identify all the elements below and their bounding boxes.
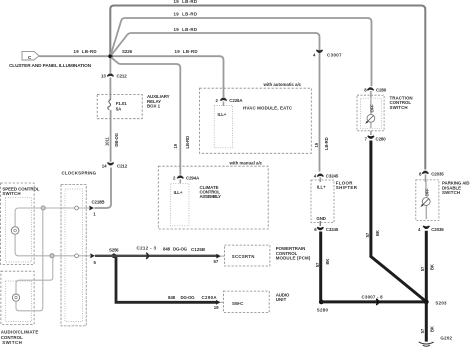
svg-text:C280: C280 <box>376 136 387 141</box>
connector C3245 pin 4 <box>314 174 339 179</box>
connector C212 pin 3 (inline chevron) <box>137 245 157 259</box>
svg-text:19 LB-RD: 19 LB-RD <box>174 0 198 4</box>
connector C3007 pin 4 (inline chevron) <box>313 50 342 57</box>
svg-text:C3245: C3245 <box>326 174 339 179</box>
svg-text:CLOCKSPRING: CLOCKSPRING <box>62 170 97 175</box>
connector C280 pin 7 <box>365 136 387 142</box>
label: rotated 57 BK (right vertical) <box>420 264 435 271</box>
HVAC module box (dashed) <box>200 88 312 153</box>
label: AUXILIARY RELAY BOX 1 <box>147 94 170 108</box>
connector C226A pin 2 <box>216 98 244 103</box>
connector C3245 pin 6 <box>314 227 339 232</box>
wire: S256 down to audio unit run <box>116 257 217 302</box>
connector C212 pin 14 <box>102 163 128 169</box>
svg-text:GND: GND <box>316 216 325 221</box>
svg-text:19 LB-RD: 19 LB-RD <box>174 11 198 16</box>
svg-text:SCCSRTN: SCCSRTN <box>232 254 255 259</box>
svg-text:19: 19 <box>173 143 178 148</box>
wire: S280 to S203 <box>321 300 426 303</box>
wire: C2035 pin 4 down to S203 <box>425 231 428 301</box>
svg-text:57: 57 <box>420 328 425 333</box>
svg-text:C212: C212 <box>117 74 128 79</box>
wire: audio switch bottom to splice on top wire <box>16 210 43 311</box>
svg-text:with manual a/c: with manual a/c <box>229 161 263 166</box>
wire: S226 down to connector C212 pin 13 <box>109 58 111 73</box>
wire: S226 to traction control switch C280 <box>111 18 372 86</box>
svg-text:5A: 5A <box>116 107 122 112</box>
svg-text:SHIFTER: SHIFTER <box>336 185 358 190</box>
parking aid disable switch box (dashed) <box>416 180 439 221</box>
svg-text:C218B: C218B <box>92 199 105 204</box>
svg-text:S203: S203 <box>435 301 447 306</box>
svg-text:14: 14 <box>102 164 107 169</box>
connector C2035 pin 4 <box>418 226 444 232</box>
auxiliary relay box 1 (dashed) <box>97 94 142 118</box>
connector C125B pin 57 (arrow) <box>214 254 225 264</box>
wire: C294A into inner box <box>179 179 181 183</box>
wire: S226 through C3007 to floor shifter C3245 <box>111 33 319 172</box>
clockspring ghost box (dashed tall) <box>61 185 86 326</box>
wire: C212 pin13 into fuse box <box>109 78 111 100</box>
svg-text:F1.01: F1.01 <box>116 101 127 106</box>
svg-text:57: 57 <box>365 232 370 237</box>
svg-text:SWITCH: SWITCH <box>442 190 460 195</box>
svg-text:19 LB-RD: 19 LB-RD <box>74 49 97 54</box>
splice circle on top wire <box>41 206 45 210</box>
svg-text:C294A: C294A <box>186 176 200 181</box>
svg-text:C3245: C3245 <box>326 227 339 232</box>
label: rotated 1011 DB-OG <box>104 133 119 146</box>
wire: S203 to ground G202 <box>425 302 428 342</box>
connector C280 pin 8 <box>364 88 386 93</box>
label: POWERTRAIN CONTROL MODULE (PCM) <box>276 246 311 260</box>
svg-text:57: 57 <box>214 259 219 264</box>
splice S280 <box>317 300 329 313</box>
svg-text:BK: BK <box>325 259 330 265</box>
clockspring inner box (dotted) <box>65 189 83 322</box>
svg-text:C280: C280 <box>376 88 387 93</box>
svg-text:CLUSTER AND PANEL ILLUMINATION: CLUSTER AND PANEL ILLUMINATION <box>9 63 91 68</box>
traction switch inner box (dotted) <box>361 98 382 128</box>
wire: switch bottom to clockspring (y=255.8) <box>15 234 91 256</box>
svg-text:LB-RD: LB-RD <box>185 136 190 149</box>
wire: C3245 pin 6 down to S280 <box>319 232 322 301</box>
svg-text:19: 19 <box>314 142 319 147</box>
splice circle on bottom wire <box>50 254 54 258</box>
connector C3007 pin 8 (inline chevron) <box>362 295 384 305</box>
svg-text:ILL+: ILL+ <box>174 190 183 195</box>
splice S203 <box>424 300 447 306</box>
label: rotated 19 LB-RD on climate feed <box>173 136 190 149</box>
clockspring contact circle (top wire) <box>75 206 79 210</box>
audio/climate control switch box (dashed) <box>1 271 34 324</box>
svg-text:S280: S280 <box>317 308 329 313</box>
label: rotated 57 BK (ground drop) <box>420 326 435 333</box>
label: rotated 57 BK (left vertical) <box>315 259 330 268</box>
wire: C3245 pin4 into floor shifter box <box>319 177 321 182</box>
svg-text:19: 19 <box>214 305 219 310</box>
label: SPEED CONTROL SWITCH <box>2 186 39 196</box>
svg-text:S256: S256 <box>109 247 119 252</box>
fuse F1.01 5A <box>108 100 127 112</box>
svg-text:19 LB-RD: 19 LB-RD <box>175 49 198 54</box>
svg-text:C3007 - 8: C3007 - 8 <box>362 295 384 300</box>
svg-text:C226A: C226A <box>229 98 243 103</box>
svg-text:1011: 1011 <box>104 137 109 146</box>
svg-text:848: 848 <box>168 295 176 300</box>
connector C294A pin 2 <box>173 176 200 181</box>
wire: S226 to HVAC module C226A <box>113 56 224 97</box>
svg-text:DG-OG: DG-OG <box>173 247 188 252</box>
wire: GND to C3245 pin 6 <box>319 221 321 226</box>
label: rotated 19 LB-RD on shifter feed <box>314 137 329 150</box>
wire: C280 pin8 into traction box <box>370 91 372 99</box>
ground G202 symbol <box>419 335 453 346</box>
label: PARKING AID DISABLE SWITCH <box>442 181 470 195</box>
svg-text:C212: C212 <box>117 164 128 169</box>
svg-text:13: 13 <box>101 74 106 79</box>
label: CLIMATE CONTROL ASSEMBLY <box>200 185 222 199</box>
floor shifter box (dashed) <box>311 180 334 223</box>
clockspring contact circle (bottom wire) <box>75 254 79 258</box>
svg-text:BK: BK <box>430 326 435 332</box>
wire: C2035 pin8 into parking aid box <box>425 175 427 183</box>
svg-text:C212 - 3: C212 - 3 <box>137 245 157 250</box>
wire: switch top to clockspring (y=208) <box>15 208 90 227</box>
svg-text:C125B: C125B <box>191 247 205 252</box>
svg-text:SWITCH: SWITCH <box>2 191 20 196</box>
svg-text:HVAC MODULE, EATC: HVAC MODULE, EATC <box>243 106 293 111</box>
wire: C to splice S226 <box>39 55 109 57</box>
parking aid switch symbol <box>421 181 431 219</box>
label: AUDIO UNIT <box>276 292 290 302</box>
climate inner box ILL+ (dotted) <box>171 183 189 226</box>
svg-text:19 LB-RD: 19 LB-RD <box>174 27 198 32</box>
wire: traction box bottom to C280 pin 7 <box>370 131 372 135</box>
svg-text:MODULE (PCM): MODULE (PCM) <box>276 256 311 261</box>
audio/climate switch inner box (dotted) <box>6 281 32 322</box>
svg-text:C3007: C3007 <box>327 52 342 57</box>
svg-text:C290A: C290A <box>202 295 218 300</box>
wire: audio switch top to splice on bottom wire <box>16 258 53 294</box>
wire: C280 pin7 down then diagonal to S203 <box>371 141 425 301</box>
audio unit SW-C box (dashed) <box>224 291 270 312</box>
svg-text:BK: BK <box>430 264 435 270</box>
wire: fuse to C212 pin 14 <box>110 110 112 162</box>
label: rotated 57 BK (middle vertical) <box>365 230 380 237</box>
PCM SCCSRTN box (dashed) <box>224 245 270 266</box>
svg-text:C2035: C2035 <box>431 227 444 232</box>
climate control assembly box (dashed) <box>158 166 268 229</box>
svg-text:C2035: C2035 <box>431 171 444 176</box>
speed control switch button symbol <box>11 227 19 235</box>
svg-text:BOX 1: BOX 1 <box>147 103 161 108</box>
wire: C226A into inner box <box>223 102 225 107</box>
HVAC inner box ILL+ (dotted) <box>214 105 232 147</box>
label: 848 DG-OG C290A <box>168 295 217 300</box>
connector C (cluster and panel illumination) <box>22 51 39 60</box>
svg-text:OFF: OFF <box>425 188 430 197</box>
connector C218B pin 1 (arrow) <box>89 199 104 216</box>
svg-text:S226: S226 <box>122 49 133 54</box>
svg-text:DB-OG: DB-OG <box>114 133 119 146</box>
traction control switch box (dashed) <box>357 95 384 131</box>
connector C290A pin 19 (arrow) <box>214 300 224 310</box>
label: TRACTION CONTROL SWITCH <box>390 95 413 109</box>
splice S226 <box>108 54 113 59</box>
wire: C212 pin14 down and left to C218B pin 1 <box>95 168 112 209</box>
connector C212 pin 13 <box>101 74 127 79</box>
audio/climate switch button symbol <box>12 294 19 301</box>
svg-text:SWITCH: SWITCH <box>2 340 22 345</box>
svg-text:LB-RD: LB-RD <box>324 137 329 150</box>
speed control switch inner box (dotted) <box>6 197 32 262</box>
svg-text:with automatic a/c: with automatic a/c <box>263 82 302 87</box>
wire: S226 up, top run, down right side to C2035 <box>110 6 425 170</box>
connector C2035 pin 8 <box>419 171 444 176</box>
label: FLOOR SHIFTER <box>336 180 358 190</box>
svg-text:SW-C: SW-C <box>232 301 244 306</box>
svg-text:ASSEMBLY: ASSEMBLY <box>200 194 222 199</box>
svg-text:DG-OG: DG-OG <box>181 295 196 300</box>
svg-text:ILL+: ILL+ <box>218 112 227 117</box>
label: 848 DG-OG C125B <box>163 247 205 252</box>
label: AUDIO/CLIMATE CONTROL SWITCH <box>1 330 39 345</box>
svg-text:57: 57 <box>420 266 425 271</box>
traction switch symbol <box>365 99 375 128</box>
svg-text:848: 848 <box>163 247 171 252</box>
svg-text:G202: G202 <box>440 335 452 340</box>
svg-text:UNIT: UNIT <box>276 297 287 302</box>
svg-text:BK: BK <box>375 230 380 236</box>
wire: C218B pin 5 to S256 to C125B <box>95 255 218 257</box>
connector C218B pin 5 (arrow) <box>90 253 96 265</box>
svg-text:ILL+: ILL+ <box>317 185 326 190</box>
svg-text:57: 57 <box>315 262 320 267</box>
speed control switch box (dashed) <box>1 183 35 265</box>
svg-text:SWITCH: SWITCH <box>390 105 408 110</box>
svg-text:OFF: OFF <box>369 104 374 113</box>
splice S256 <box>109 247 119 258</box>
wire: S226 to climate control assembly C294A <box>111 58 180 175</box>
